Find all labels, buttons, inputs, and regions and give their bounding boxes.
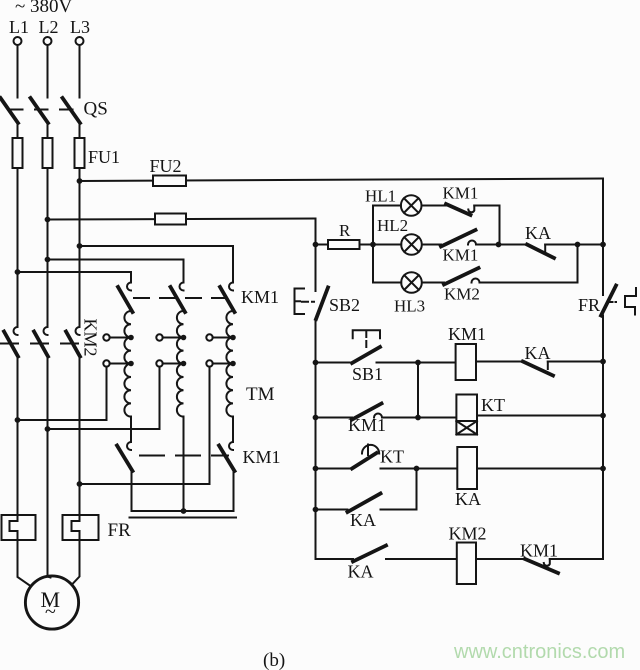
- svg-text:KM2: KM2: [81, 318, 101, 356]
- svg-text:KA: KA: [525, 223, 551, 243]
- svg-text:HL2: HL2: [377, 216, 408, 235]
- svg-text:KM1: KM1: [243, 447, 281, 467]
- svg-text:KM2: KM2: [449, 524, 487, 544]
- svg-text:L2: L2: [39, 17, 59, 37]
- svg-text:SB2: SB2: [329, 295, 360, 315]
- svg-text:KT: KT: [481, 395, 505, 415]
- svg-text:~ 380V: ~ 380V: [15, 0, 73, 17]
- svg-text:KM1: KM1: [241, 287, 279, 307]
- svg-text:FR: FR: [108, 520, 132, 541]
- svg-text:QS: QS: [84, 99, 108, 120]
- svg-text:www.cntronics.com: www.cntronics.com: [453, 641, 625, 663]
- svg-text:KT: KT: [380, 447, 404, 467]
- svg-text:KM1: KM1: [443, 246, 479, 265]
- svg-text:KM2: KM2: [444, 285, 480, 304]
- svg-text:KM1: KM1: [448, 324, 486, 344]
- svg-text:(b): (b): [263, 650, 285, 670]
- svg-text:L1: L1: [9, 17, 29, 37]
- svg-text:KM1: KM1: [520, 541, 558, 561]
- svg-text:KA: KA: [455, 489, 481, 509]
- svg-text:KA: KA: [525, 343, 551, 363]
- svg-text:FU1: FU1: [88, 147, 120, 167]
- svg-text:FR: FR: [578, 295, 600, 315]
- svg-text:R: R: [339, 221, 351, 240]
- svg-text:L3: L3: [70, 17, 90, 37]
- svg-text:FU2: FU2: [150, 156, 182, 176]
- svg-text:SB1: SB1: [352, 364, 383, 384]
- svg-text:~: ~: [45, 601, 56, 623]
- svg-text:KM1: KM1: [348, 415, 386, 435]
- svg-text:HL3: HL3: [394, 297, 425, 316]
- svg-text:KA: KA: [348, 562, 374, 582]
- svg-text:KM1: KM1: [443, 184, 479, 203]
- svg-text:KA: KA: [350, 510, 376, 530]
- svg-text:HL1: HL1: [365, 187, 396, 206]
- svg-text:TM: TM: [246, 384, 275, 405]
